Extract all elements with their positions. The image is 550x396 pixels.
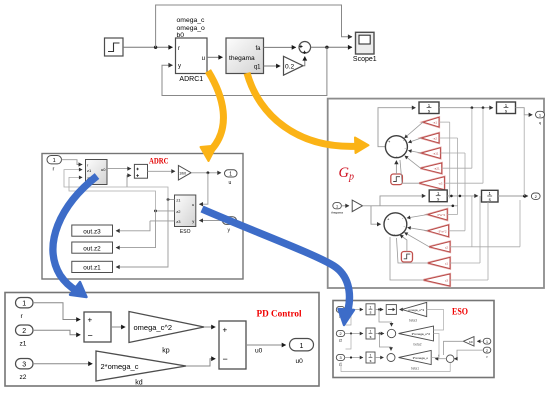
svg-text:beta3: beta3 (409, 319, 417, 323)
inport oval thegama (bottom left) (331, 203, 343, 215)
node on z1 wire (167, 198, 170, 201)
inport 1 r (16, 298, 34, 321)
svg-text:c2: c2 (445, 245, 449, 249)
wire z1 row (345, 357, 363, 359)
integrator row3 (366, 352, 375, 363)
svg-text:1: 1 (229, 171, 232, 177)
svg-text:z2: z2 (339, 338, 343, 342)
svg-text:fa: fa (255, 46, 261, 52)
feedback verticals right side top (449, 122, 451, 198)
wire sum to Scope input2 (311, 46, 352, 48)
wire delay to beta3 gain (400, 309, 403, 311)
wire beta2 into sum row2 (398, 333, 400, 335)
sum2 block (kp - kd) (219, 321, 246, 369)
node junction on step wire (154, 46, 157, 49)
svg-text:kd: kd (135, 380, 143, 387)
node on z2 wire (154, 210, 157, 213)
outport oval z1 (336, 354, 344, 366)
outport block out.z2 (72, 242, 113, 253)
node on u wire (207, 171, 210, 174)
wire T1 to circle A (405, 122, 424, 138)
wire ESO z2 out left (156, 210, 175, 212)
svg-text:q: q (539, 121, 541, 125)
wire kp to sum2 plus (204, 326, 215, 328)
wire sum bottom feedback (341, 362, 450, 372)
svg-text:r: r (53, 167, 55, 173)
svg-text:2: 2 (22, 328, 26, 335)
vertical feedback right of triangles (431, 334, 439, 358)
wire step to ADRC1 r (123, 46, 173, 48)
svg-text:omega_o^3: omega_o^3 (408, 308, 424, 312)
gain kd 2*omega_c (96, 351, 186, 387)
Gp subsystem frame (328, 99, 544, 288)
sum block (r - z1) (84, 312, 111, 342)
wire ESO z3 out left (150, 220, 175, 222)
svg-text:PD Control: PD Control (257, 310, 302, 320)
blue annotation arrow to ESO box (202, 209, 349, 310)
sum circle A (large) (385, 136, 407, 159)
svg-text:1: 1 (22, 301, 26, 308)
svg-text:u: u (192, 202, 194, 207)
svg-text:ESO: ESO (180, 229, 191, 235)
wire B4 left then up to circle B (397, 238, 428, 263)
step source Step (105, 38, 124, 56)
svg-text:b0: b0 (469, 340, 473, 344)
svg-text:y: y (178, 64, 181, 70)
integrator 1/s C (middle) (429, 190, 447, 202)
outport 1 u0 (290, 339, 314, 366)
yellow annotation arrow to Gp box (247, 73, 358, 146)
wire u node down to ESO u input (199, 173, 208, 204)
wire kd to sum2 minus (186, 359, 215, 366)
red gain triangle B4 (428, 257, 450, 268)
gain b0 (points left, right side) (463, 337, 474, 346)
wire ADRC1 u to thegama (207, 56, 223, 58)
input gain triangle (white) (352, 200, 362, 212)
outport oval z2 (336, 330, 344, 342)
wire z3 row (345, 309, 363, 311)
svg-text:Scope1: Scope1 (353, 56, 377, 63)
svg-text:u0: u0 (101, 167, 106, 172)
subsystem thegama (226, 38, 264, 74)
svg-text:s: s (370, 359, 372, 363)
svg-text:r: r (178, 46, 180, 52)
svg-text:omega_c^2: omega_c^2 (134, 323, 173, 332)
wire circleA up to integrator A (378, 108, 416, 147)
svg-text:out.z3: out.z3 (83, 228, 101, 235)
svg-text:omega_c: omega_c (177, 17, 206, 24)
svg-text:+: + (223, 326, 228, 335)
svg-text:-a3: -a3 (438, 182, 443, 186)
svg-text:1/b0: 1/b0 (179, 171, 186, 175)
subsystem PD (86, 160, 108, 185)
wire integrator A to integrator B (439, 107, 493, 109)
svg-text:1: 1 (300, 343, 304, 350)
wire sum right output left (435, 358, 446, 360)
wire integrator D to outport mid (498, 195, 528, 197)
svg-text:c3: c3 (445, 279, 449, 283)
svg-text:kp: kp (162, 348, 170, 355)
red gain triangle B3 (429, 242, 450, 253)
outport oval mid right (531, 193, 540, 199)
vertical from top outport node down to mid row (523, 115, 525, 196)
wire from long wire down into circle B left (371, 206, 381, 224)
svg-text:s: s (370, 335, 372, 339)
svg-text:1: 1 (53, 158, 56, 164)
outport oval top right (536, 111, 545, 125)
red step block B (401, 252, 412, 263)
integrator 1/s A (419, 102, 439, 114)
node after sum (325, 46, 328, 49)
wire gain 0.2 up into sum (303, 57, 305, 66)
wire thegama q1 to gain 0.2 (264, 65, 281, 67)
wire inport2 to ESO y (199, 220, 222, 222)
inport 1 r (47, 156, 62, 173)
wire feedback z2 to PD z2 input (69, 177, 156, 211)
node dots on top wire (471, 106, 474, 109)
wire row1 to delay block (375, 309, 383, 311)
svg-text:-3*w^2: -3*w^2 (438, 229, 447, 233)
inport oval y (right) (483, 347, 491, 358)
wire up from long wire into integrator C input (380, 196, 426, 206)
wire z3 down to out.z3 (116, 221, 150, 231)
red gain triangle T2 (421, 133, 439, 143)
svg-text:b0: b0 (177, 32, 185, 39)
sum circle row2 (387, 329, 395, 337)
integrator row2 (366, 328, 375, 339)
wire r to PD block (62, 160, 83, 165)
outport block out.z3 (72, 225, 113, 236)
integrator 1/s B (497, 102, 516, 114)
wire feedback down and around to ADRC1 y (162, 47, 327, 95)
svg-text:thegama: thegama (331, 211, 343, 215)
ESO subsystem frame (333, 301, 494, 378)
wire step B to circle B (400, 235, 407, 252)
svg-text:u0: u0 (296, 358, 304, 365)
red gain triangle T4 (421, 163, 442, 174)
svg-text:2: 2 (339, 332, 341, 336)
inport oval u (right) (483, 338, 491, 349)
gain 1/b0 (178, 166, 191, 181)
svg-text:0.2: 0.2 (285, 63, 294, 70)
inport 3 z2 (16, 359, 34, 382)
wire y oval into sum right (454, 350, 483, 359)
svg-text:-a21: -a21 (434, 167, 440, 171)
wire row1 down into sum row2 (379, 310, 392, 327)
svg-text:3*omega_o^2: 3*omega_o^2 (412, 332, 431, 336)
feedback verticals lower right (457, 206, 459, 215)
svg-text:-a11: -a11 (433, 152, 439, 156)
svg-text:ADRC1: ADRC1 (179, 76, 203, 83)
svg-text:out.z1: out.z1 (83, 265, 101, 272)
subsystem ESO (175, 195, 196, 235)
wire gain to outport u (191, 172, 221, 174)
gain beta2 (points left) (399, 326, 434, 347)
wire T2 to circle A (408, 138, 421, 143)
svg-text:z2: z2 (20, 374, 27, 381)
svg-text:ESO: ESO (452, 307, 468, 317)
gain beta3 (points left) (402, 302, 427, 322)
svg-text:3*omega_o: 3*omega_o (413, 356, 429, 360)
svg-text:u0: u0 (255, 348, 263, 355)
wire B1 to circle B (407, 215, 428, 219)
svg-text:s: s (370, 311, 372, 315)
wire B2 to circle B (408, 228, 428, 231)
gain 0.2 (284, 56, 304, 75)
wire T3 to circle A (408, 151, 421, 154)
wire z1 down to out.z1 (116, 200, 168, 268)
wire sum2 to outport u0 (246, 344, 286, 346)
svg-text:1: 1 (336, 204, 338, 208)
svg-text:1: 1 (370, 354, 372, 358)
blue annotation arrow to PD Control box (53, 176, 97, 291)
inport 2 y (223, 217, 237, 234)
integrator row1 (366, 304, 375, 315)
sum junction circle (299, 42, 311, 54)
svg-text:3: 3 (22, 362, 26, 369)
svg-text:q1: q1 (254, 65, 261, 71)
red gain triangle T5 (419, 177, 444, 190)
wire sum to gain kp (111, 326, 125, 328)
ADRC subsystem frame (42, 154, 243, 280)
outport oval z3 (336, 306, 344, 318)
wire feedback to Scope input1 (156, 5, 352, 47)
wire ESO z1 out left (168, 199, 175, 201)
wire row3 to sum3 (375, 357, 384, 359)
svg-text:u: u (229, 180, 232, 186)
red gain triangle B5 (424, 274, 450, 286)
red gain triangle T3 (421, 148, 440, 159)
ADRC1 parameter labels omega_c omega_o b0 (177, 17, 206, 39)
scope Scope1 (353, 32, 377, 63)
svg-text:beta1: beta1 (411, 367, 419, 371)
inport 2 z1 (16, 325, 34, 348)
svg-text:y: y (192, 218, 194, 223)
wire feedback z1 to PD z1 input (64, 170, 168, 200)
svg-text:−: − (88, 331, 93, 341)
integrator 1/s D (middle right) (482, 190, 499, 202)
svg-text:c1: c1 (445, 262, 449, 266)
wire B3 to circle B (405, 233, 430, 247)
PD Control subsystem frame (5, 293, 319, 387)
svg-text:2*omega_c: 2*omega_c (101, 362, 139, 371)
sum circle right (446, 355, 454, 363)
wire PD u0 to sum block (107, 168, 131, 170)
outport 1 u (225, 170, 238, 186)
wire input gain long to right (363, 205, 459, 207)
svg-text:2: 2 (486, 349, 488, 353)
svg-text:+: + (88, 316, 93, 325)
svg-text:ADRC: ADRC (149, 157, 169, 166)
wire thegama fa to sum (264, 46, 296, 48)
subsystem ADRC1 (176, 38, 208, 83)
outport block out.z1 (72, 261, 113, 272)
wire z2 row (345, 333, 363, 335)
wire z2 down to out.z2 (116, 211, 156, 248)
wire row2 to sum2 (375, 333, 384, 335)
wire row2 down into sum row3 (380, 334, 392, 351)
svg-text:1: 1 (486, 340, 488, 344)
svg-text:z1: z1 (339, 362, 343, 366)
wire gain b0 left down (444, 341, 464, 355)
delay block row1 (386, 305, 396, 315)
gain kp omega_c^2 (129, 312, 204, 355)
wire step A to circle A (395, 161, 397, 175)
wire z2 to gain kd (33, 363, 92, 365)
svg-text:-a1: -a1 (433, 121, 438, 125)
svg-text:−: − (223, 354, 228, 364)
sum circle row3 (387, 354, 395, 362)
svg-text:3: 3 (339, 356, 341, 360)
wire integrator B to outport q (516, 108, 533, 115)
wire inport to input gain (341, 205, 349, 207)
red gain triangle B1 (428, 209, 447, 220)
wire T5 left to circle A area (400, 160, 419, 183)
svg-text:1: 1 (370, 305, 372, 309)
wire u oval to gain b0 (477, 340, 483, 342)
sum circle B (large lower) (384, 213, 407, 237)
svg-text:thegama: thegama (229, 55, 255, 62)
wire r to sum plus (33, 303, 80, 320)
red step block A (391, 174, 403, 185)
wire sum to gain 1/b0 (148, 170, 176, 172)
svg-text:omega_o: omega_o (177, 25, 206, 32)
wire z1 to sum minus (33, 330, 80, 335)
svg-text:z1: z1 (20, 341, 27, 348)
svg-text:3*w^2: 3*w^2 (437, 213, 445, 217)
gain beta1 (points left) (399, 350, 432, 370)
svg-text:1: 1 (370, 330, 372, 334)
wire B5 left (390, 237, 424, 280)
wire T4 to circle A (405, 156, 421, 168)
svg-text:u: u (202, 56, 205, 62)
svg-text:out.z2: out.z2 (83, 245, 101, 252)
svg-text:beta2: beta2 (414, 343, 422, 347)
yellow annotation arrow to ADRC box (208, 71, 223, 149)
sum block Add (134, 164, 147, 178)
wire integrator C to integrator D (447, 195, 478, 197)
red gain triangle T1 (423, 117, 439, 127)
red gain triangle B2 (428, 225, 449, 237)
svg-text:-a2: -a2 (433, 137, 438, 141)
feedback wires left side (346, 310, 352, 326)
